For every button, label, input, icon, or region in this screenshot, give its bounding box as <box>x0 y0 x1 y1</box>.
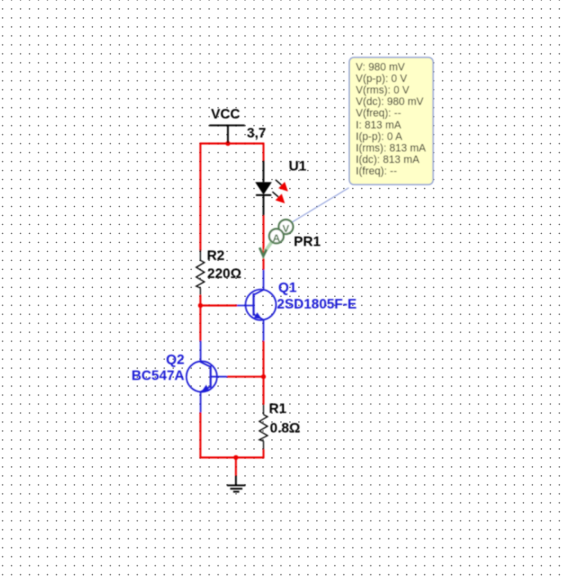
svg-text:V(p-p): 0 V: V(p-p): 0 V <box>356 73 408 85</box>
LED arrow 1 <box>276 180 282 185</box>
probe PR1 A circle <box>269 229 283 244</box>
svg-text:0.8Ω: 0.8Ω <box>270 421 300 436</box>
svg-text:I(freq): --: I(freq): -- <box>356 166 398 178</box>
probe PR1 leader line <box>292 188 349 223</box>
wire right (Q1 emitter to R1) <box>263 341 265 405</box>
wire right (R1 bottom to bottom rail) <box>263 449 265 458</box>
ground <box>227 476 245 492</box>
svg-text:R1: R1 <box>269 401 287 416</box>
svg-text:BC547A: BC547A <box>131 368 184 383</box>
wire left middle (R2 bottom to Q2 collector) <box>199 295 201 341</box>
svg-text:VCC: VCC <box>211 106 240 121</box>
svg-text:2SD1805F-E: 2SD1805F-E <box>277 297 357 312</box>
svg-text:I(rms): 813 mA: I(rms): 813 mA <box>356 143 427 155</box>
resistor R2 <box>196 250 204 295</box>
tooltip text <box>356 61 427 177</box>
svg-text:V(freq): --: V(freq): -- <box>356 108 402 120</box>
wire bottom horizontal <box>200 457 263 459</box>
svg-text:3,7: 3,7 <box>247 126 267 141</box>
wire right (LED to probe/Q1 collector) <box>263 215 265 269</box>
svg-text:I(dc): 813 mA: I(dc): 813 mA <box>356 154 421 166</box>
wire right vertical top (VCC to LED) <box>263 143 265 162</box>
VCC power symbol <box>209 125 244 143</box>
wire ground stem red <box>235 458 237 476</box>
junction node ground <box>234 455 239 460</box>
svg-text:R2: R2 <box>207 248 225 263</box>
resistor R1 <box>259 405 267 450</box>
svg-text:U1: U1 <box>289 158 307 173</box>
wire Q1 base horizontal <box>200 305 237 307</box>
svg-text:V(rms): 0 V: V(rms): 0 V <box>356 85 410 97</box>
probe PR1 V circle <box>279 220 293 235</box>
wire Q2 base horizontal <box>227 376 263 378</box>
svg-text:V(dc): 980 mV: V(dc): 980 mV <box>356 96 425 108</box>
LED arrow 2 <box>272 192 278 197</box>
wire left lower (Q2 emitter to bottom) <box>199 413 201 459</box>
wire left vertical upper <box>199 143 201 251</box>
junction node Q1 emitter/Q2 base/R1 <box>261 374 266 379</box>
probe tooltip box <box>349 57 433 184</box>
svg-text:Q1: Q1 <box>278 280 297 295</box>
svg-text:220Ω: 220Ω <box>207 266 241 281</box>
transistor Q2 (mirrored) <box>186 341 227 413</box>
svg-text:I(p-p): 0 A: I(p-p): 0 A <box>356 131 403 143</box>
junction node R2/Q1 base <box>198 303 203 308</box>
LED U1 <box>255 161 288 216</box>
wire top horizontal <box>200 143 263 145</box>
svg-text:PR1: PR1 <box>294 234 321 249</box>
svg-text:I: 813 mA: I: 813 mA <box>356 119 402 131</box>
probe PR1 arrow <box>265 240 274 252</box>
svg-text:Q2: Q2 <box>166 352 185 367</box>
svg-text:A: A <box>273 233 281 244</box>
svg-text:V: 980 mV: V: 980 mV <box>356 61 406 73</box>
junction VCC node <box>226 141 231 146</box>
transistor Q1 <box>237 270 276 341</box>
